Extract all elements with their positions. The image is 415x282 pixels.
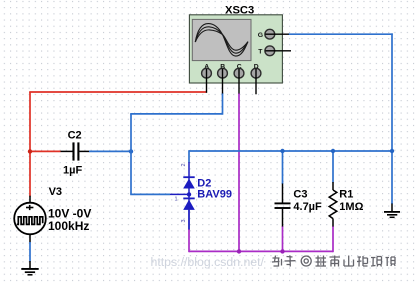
svg-text:2: 2 [181,163,187,166]
wire blue right vertical [391,33,393,204]
terminal C [234,64,244,94]
wire blue junction down [130,151,132,194]
svg-text:https://blog.csdn.net/: https://blog.csdn.net/ [151,255,265,269]
wire blue to D2 pin 1 [130,193,170,195]
svg-text:A: A [204,64,209,71]
terminal D [251,64,261,95]
svg-text:4.7µF: 4.7µF [293,201,322,213]
wire blue V3 to ground [29,242,31,262]
wire blue horizontal y=114 [130,113,222,115]
wire blue scope G to right [288,33,393,35]
svg-text:100kHz: 100kHz [48,219,89,233]
node junction blue R1 [331,149,335,153]
node junction blue C3 [280,149,284,153]
wire magenta C3 bottom [282,226,284,251]
wire blue up to scope B pin [222,93,224,115]
capacitor C2 [61,142,90,160]
wire magenta scope C down [238,93,240,251]
resistor R1 [329,182,337,227]
svg-text:1MΩ: 1MΩ [339,201,363,213]
op-amp: oscilloscope XSC3 body [189,15,282,83]
node junction blue [129,149,133,153]
wire blue output net y=151 [189,150,392,152]
wire red V3 to scope A (vertical x=30) [29,92,31,197]
ground left [21,261,38,275]
terminal A [202,64,212,93]
svg-text:BAV99: BAV99 [197,188,232,200]
wire magenta bottom horizontal [189,250,333,252]
wire blue C2 to junction [89,150,131,152]
diode D2 BAV99 [170,162,195,230]
wire blue to C3 top [282,151,284,184]
svg-text:D: D [254,64,259,71]
terminal T [258,46,291,56]
source V3 [14,196,46,243]
screen waveform [195,24,248,57]
wire magenta D2 bottom [188,229,190,252]
terminal G [258,29,289,39]
svg-text:XSC3: XSC3 [225,4,254,16]
svg-text:1: 1 [175,197,178,203]
svg-text:B: B [220,64,225,71]
svg-text:C2: C2 [68,129,82,141]
wire blue junction up [130,114,132,151]
svg-text:G: G [258,32,263,39]
node junction blue right [390,149,394,153]
svg-text:R1: R1 [339,188,353,200]
wire red horizontal y=92 to scope A pin [29,91,206,93]
node junction magenta C3 [280,249,284,253]
terminal B [218,64,228,94]
wire red junction to C2 [30,150,61,152]
watermark cjk blob glyphs [272,256,395,267]
svg-text:C: C [237,64,242,71]
svg-text:3: 3 [181,219,187,222]
wire blue to D2 pin 2 [188,150,190,162]
capacitor C3 [275,184,291,227]
node junction magenta C pin [237,249,241,253]
svg-text:V3: V3 [49,186,62,198]
svg-text:C3: C3 [293,188,307,200]
wire blue to R1 top [332,151,334,183]
node junction red [28,149,32,153]
svg-text:1µF: 1µF [63,165,82,177]
wire magenta R1 bottom [332,226,334,252]
ground right [384,204,400,218]
